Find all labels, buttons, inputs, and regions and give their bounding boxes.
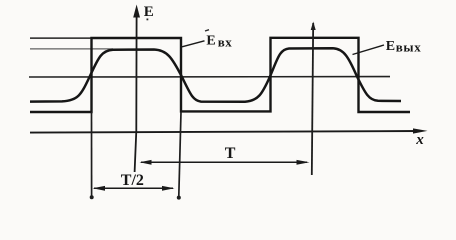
svg-text:T/2: T/2 (121, 172, 144, 189)
svg-text:E: E (206, 33, 215, 48)
svg-text:E: E (144, 4, 154, 20)
svg-text:E: E (386, 39, 395, 54)
T/2 left arrowhead (93, 186, 106, 191)
smoothed output curve E_vyx (30, 48, 401, 102)
T dimension right arrowhead (297, 160, 310, 165)
accent speck above E_vx (205, 30, 209, 31)
blob at bottom of right guide (177, 196, 181, 200)
T dimension line (141, 161, 307, 163)
svg-text:T: T (225, 145, 236, 162)
x-axis (30, 131, 420, 133)
leader line to E_vx label (182, 41, 205, 47)
leader line to E_vyx label (353, 45, 385, 55)
reference line at square-wave top level (30, 37, 92, 39)
svg-text:x: x (415, 132, 424, 148)
vertical guide at first pulse right edge (179, 112, 181, 196)
speck under E label (147, 19, 149, 21)
T/2 dimension line (94, 187, 173, 189)
svg-text:вх: вх (218, 35, 233, 50)
reference line at curve top level (30, 48, 113, 50)
vertical guide through second pulse center (312, 23, 313, 175)
x-axis arrowhead (413, 128, 428, 133)
E-axis arrowhead (133, 5, 140, 18)
svg-text:вых: вых (396, 40, 422, 55)
small arrowhead atop center guide (311, 22, 316, 31)
T/2 right arrowhead (162, 186, 175, 191)
square wave E_vx (30, 38, 410, 112)
vertical guide at first pulse left edge (91, 112, 93, 196)
blob at bottom of left guide (90, 195, 94, 199)
midline reference (zero level) (29, 76, 390, 78)
E axis (135, 14, 137, 172)
T dimension left arrowhead (140, 160, 152, 165)
